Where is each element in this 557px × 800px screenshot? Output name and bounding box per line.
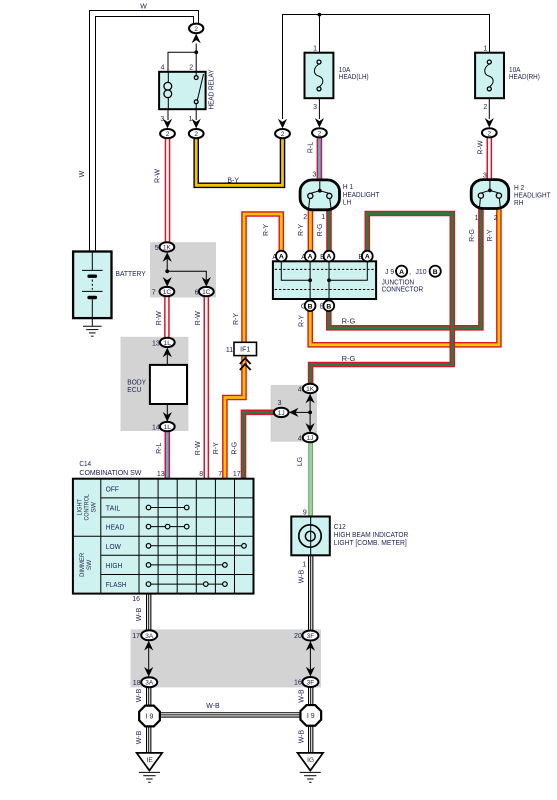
arrow down into connector 2 (relay pin3) bbox=[163, 119, 172, 129]
wire R-Y IF1 to junction A bbox=[244, 214, 281, 343]
arrow down into 7(1C) bbox=[163, 277, 172, 287]
svg-text:HEAD(RH): HEAD(RH) bbox=[509, 72, 540, 81]
svg-text:2: 2 bbox=[483, 104, 487, 111]
wire W-B I9 right to ground IG bbox=[308, 726, 313, 754]
svg-text:2: 2 bbox=[281, 131, 285, 138]
svg-text:RH: RH bbox=[514, 198, 523, 207]
wire R-G 3(1J) to comb sw pin17 bbox=[244, 412, 276, 479]
svg-text:LIGHT: LIGHT bbox=[77, 499, 84, 516]
svg-text:1J: 1J bbox=[278, 410, 285, 417]
wire: feed line to fuses bbox=[283, 15, 490, 120]
svg-text:OFF: OFF bbox=[106, 486, 119, 493]
arrow down into connector 2 (relay pin1) bbox=[192, 119, 201, 129]
connector 2 (fuse LH) bbox=[312, 128, 327, 137]
svg-text:18: 18 bbox=[133, 680, 141, 687]
svg-text:1K: 1K bbox=[306, 386, 315, 393]
contact row TAIL bbox=[149, 507, 187, 509]
svg-text:2: 2 bbox=[318, 130, 322, 137]
svg-text:HIGH: HIGH bbox=[106, 563, 123, 570]
svg-text:3A: 3A bbox=[145, 633, 154, 640]
svg-text:1L: 1L bbox=[164, 340, 172, 347]
svg-text:A: A bbox=[327, 254, 332, 261]
svg-text:3F: 3F bbox=[307, 680, 315, 687]
svg-text:CONNECTOR: CONNECTOR bbox=[382, 285, 424, 294]
svg-text:4: 4 bbox=[298, 386, 302, 393]
svg-text:LOW: LOW bbox=[106, 544, 121, 551]
arrow down into 18(3A) bbox=[144, 667, 153, 677]
connector 2 (fuse RH) bbox=[482, 128, 497, 137]
svg-text:1K: 1K bbox=[163, 244, 172, 251]
svg-text:2: 2 bbox=[194, 131, 198, 138]
svg-text:W-B: W-B bbox=[298, 689, 305, 703]
svg-text:1C: 1C bbox=[163, 289, 172, 296]
svg-text:13: 13 bbox=[157, 471, 165, 478]
svg-text:1: 1 bbox=[321, 214, 325, 221]
headlight H2 RH bbox=[471, 180, 551, 209]
svg-text:1: 1 bbox=[302, 561, 306, 568]
wire R-Y H1 pin2 to junction A bbox=[308, 209, 314, 251]
wire R-W relay pin3 to 5(1K) bbox=[165, 138, 171, 243]
wire R-G junction B bottom to H2 pin1 bbox=[329, 208, 481, 328]
svg-text:16: 16 bbox=[294, 680, 302, 687]
svg-text:IE: IE bbox=[147, 757, 154, 764]
svg-text:8: 8 bbox=[199, 471, 203, 478]
svg-text:TAIL: TAIL bbox=[106, 506, 121, 513]
svg-text:R-Y: R-Y bbox=[213, 442, 220, 454]
svg-text:2: 2 bbox=[189, 65, 193, 72]
wire W (battery to head relay), double line bbox=[90, 11, 199, 252]
svg-text:IG: IG bbox=[307, 757, 314, 764]
svg-text:BATTERY: BATTERY bbox=[116, 269, 146, 278]
arrow down into 6(1C) bbox=[202, 277, 211, 287]
connector IF1 bbox=[226, 342, 257, 370]
arrow down into connector 2 (fuse LH) bbox=[315, 118, 324, 128]
svg-text:1: 1 bbox=[313, 46, 317, 53]
svg-text:I 9: I 9 bbox=[146, 714, 154, 721]
svg-text:16: 16 bbox=[132, 596, 140, 603]
contact row HEAD bbox=[149, 526, 187, 528]
svg-text:2: 2 bbox=[494, 215, 498, 222]
svg-text:7: 7 bbox=[152, 289, 156, 296]
svg-text:R-Y: R-Y bbox=[298, 224, 305, 236]
wire B-Y relay pin1 to fuses feed bbox=[196, 138, 282, 185]
connector 2 (top, W wire) bbox=[189, 24, 203, 34]
arrow up into 5(1K) bbox=[163, 252, 172, 262]
wire R-L 14(1L) to comb sw pin13 bbox=[165, 431, 171, 479]
svg-text:1L: 1L bbox=[164, 424, 172, 431]
svg-text:R-L: R-L bbox=[156, 442, 163, 453]
svg-text:B: B bbox=[308, 303, 313, 310]
wire W-B comb sw pin16 to 17(3A) bbox=[146, 594, 151, 631]
wire R-W 7(1C) to 13(1L) bbox=[164, 296, 170, 338]
wire: relay feed from connector 2 bbox=[195, 44, 197, 72]
wire: 3A to 3A bbox=[148, 647, 150, 672]
svg-text:W-B: W-B bbox=[136, 730, 143, 744]
shaded bottom connector area bbox=[131, 629, 322, 687]
wire R-G H1 pin1 to junction B bbox=[326, 209, 332, 251]
svg-text:1: 1 bbox=[475, 215, 479, 222]
svg-text:R-W: R-W bbox=[477, 140, 484, 154]
head relay U1 bbox=[159, 70, 215, 110]
arrow left into 3(1J) bbox=[289, 408, 299, 417]
svg-text:4: 4 bbox=[298, 435, 302, 442]
wire: 1K to 1C split bbox=[167, 258, 206, 280]
svg-text:R-W: R-W bbox=[155, 169, 162, 183]
svg-text:R-W: R-W bbox=[195, 311, 202, 325]
svg-text:B-Y: B-Y bbox=[227, 178, 239, 185]
node: relay feed junction bbox=[194, 50, 198, 54]
ground (battery) bbox=[83, 318, 102, 336]
svg-text:W: W bbox=[140, 3, 147, 10]
svg-text:R-W: R-W bbox=[156, 311, 163, 325]
ground IG bbox=[298, 753, 324, 782]
indicator C12 high beam bbox=[291, 510, 408, 569]
svg-text:W-B: W-B bbox=[136, 688, 143, 702]
svg-text:1C: 1C bbox=[202, 289, 211, 296]
svg-text:R-G: R-G bbox=[342, 354, 356, 363]
headlight H1 LH bbox=[300, 180, 380, 210]
arrow down into 16(3F) bbox=[306, 667, 315, 677]
svg-text:J10: J10 bbox=[416, 267, 427, 276]
battery bbox=[73, 252, 146, 319]
svg-text:FLASH: FLASH bbox=[106, 582, 127, 589]
svg-text:17: 17 bbox=[233, 471, 241, 478]
svg-text:LH: LH bbox=[343, 197, 351, 206]
svg-text:2: 2 bbox=[303, 214, 307, 221]
svg-text:HEAD: HEAD bbox=[106, 525, 125, 532]
arrow down into 4(1J) bbox=[306, 423, 315, 433]
svg-text:LIGHT [COMB. METER]: LIGHT [COMB. METER] bbox=[334, 538, 407, 547]
svg-text:R-G: R-G bbox=[317, 224, 324, 237]
svg-text:3: 3 bbox=[312, 172, 316, 179]
wire R-W fuse RH to H2 pin3 bbox=[486, 137, 492, 181]
label J9 / J10 junction connector bbox=[382, 266, 441, 294]
ground point I9 (left) bbox=[139, 706, 160, 727]
svg-text:J 9: J 9 bbox=[385, 267, 394, 276]
svg-text:W-B: W-B bbox=[136, 607, 143, 621]
svg-text:A: A bbox=[279, 254, 284, 261]
arrow up into 4(1K) bbox=[306, 394, 315, 404]
svg-text:14: 14 bbox=[152, 425, 160, 432]
svg-text:I 9: I 9 bbox=[307, 713, 315, 720]
svg-text:W-B: W-B bbox=[298, 729, 305, 743]
svg-text:6: 6 bbox=[195, 289, 199, 296]
svg-text:HEAD RELAY: HEAD RELAY bbox=[207, 70, 216, 110]
svg-text:W-B: W-B bbox=[299, 569, 306, 583]
shaded relay-block area (battery junction connectors) bbox=[150, 242, 216, 297]
arrow down into connector 2 (B-Y feed) bbox=[278, 119, 287, 129]
ground IE bbox=[137, 753, 163, 782]
svg-text:LG: LG bbox=[297, 457, 304, 466]
svg-text:20: 20 bbox=[294, 633, 302, 640]
svg-text:R-Y: R-Y bbox=[263, 224, 270, 236]
wire W-B I9 left to ground IE bbox=[146, 727, 151, 754]
svg-text:R-G: R-G bbox=[469, 229, 476, 242]
wire: 1K to 1J split bbox=[293, 400, 310, 433]
arrow up into 20(3F) bbox=[306, 641, 315, 651]
wire: 3F to 3F bbox=[309, 647, 311, 672]
svg-text:A: A bbox=[308, 254, 313, 261]
svg-text:R-G: R-G bbox=[342, 317, 356, 326]
svg-text:2: 2 bbox=[166, 131, 170, 138]
wire W-B between ground points bbox=[161, 712, 301, 717]
svg-text:SW: SW bbox=[86, 559, 93, 570]
contact row LOW bbox=[149, 545, 245, 547]
svg-text:1J: 1J bbox=[307, 435, 314, 442]
arrow down into connector 2 (fuse RH) bbox=[485, 118, 494, 128]
svg-text:13: 13 bbox=[152, 340, 160, 347]
connector 2 (relay pin1) bbox=[189, 129, 204, 138]
svg-text:W-B: W-B bbox=[206, 703, 220, 710]
svg-text:B: B bbox=[433, 269, 438, 276]
svg-text:7: 7 bbox=[218, 471, 222, 478]
fuse 10A HEAD(RH) bbox=[475, 53, 540, 98]
svg-text:1: 1 bbox=[483, 46, 487, 53]
svg-text:3F: 3F bbox=[307, 633, 315, 640]
svg-text:DIMMER: DIMMER bbox=[79, 553, 86, 577]
arrow up into connector 2 top bbox=[192, 34, 201, 44]
wire W-B 16(3F) to ground point I9 right bbox=[308, 687, 313, 705]
wire R-Y below IF1 to comb sw pin7 bbox=[225, 355, 244, 479]
shaded body ECU area bbox=[121, 337, 189, 431]
svg-text:B: B bbox=[326, 303, 331, 310]
svg-text:2: 2 bbox=[194, 26, 198, 33]
svg-text:3: 3 bbox=[278, 400, 282, 407]
wire R-L fuse LH to H1 pin3 bbox=[317, 137, 323, 181]
body ECU bbox=[127, 338, 187, 432]
svg-text:5: 5 bbox=[155, 245, 159, 252]
wire: relay pin stubs bbox=[168, 109, 196, 120]
svg-text:ECU: ECU bbox=[127, 385, 141, 394]
svg-text:R-G: R-G bbox=[232, 442, 239, 455]
svg-text:C14: C14 bbox=[79, 459, 91, 468]
wire W-B 18(3A) to ground point I9 left bbox=[146, 687, 151, 705]
svg-text:HEAD(LH): HEAD(LH) bbox=[339, 72, 369, 81]
wire LG 4(1J) to C12 bbox=[308, 442, 313, 517]
connector 2 (relay pin3) bbox=[160, 129, 175, 138]
ground point I9 (right) bbox=[300, 705, 321, 726]
svg-text:,: , bbox=[409, 267, 411, 276]
svg-text:R-Y: R-Y bbox=[487, 229, 494, 241]
svg-text:2: 2 bbox=[487, 130, 491, 137]
svg-text:A: A bbox=[399, 269, 404, 276]
svg-text:4: 4 bbox=[161, 65, 165, 72]
svg-text:R-L: R-L bbox=[307, 142, 314, 153]
svg-text:R-Y: R-Y bbox=[233, 313, 240, 325]
wire: fuse bottom stubs bbox=[319, 98, 489, 119]
svg-text:3: 3 bbox=[313, 104, 317, 111]
wire R-Y junction C bottom to H2 pin2 bbox=[310, 208, 499, 345]
svg-text:17: 17 bbox=[132, 633, 140, 640]
wire: fuse LH feed bbox=[319, 15, 321, 53]
fuse 10A HEAD(LH) bbox=[305, 53, 370, 98]
svg-text:IF1: IF1 bbox=[240, 347, 250, 354]
svg-text:A: A bbox=[365, 254, 370, 261]
combination switch C14 bbox=[73, 459, 254, 594]
wire R-G junction B loop to 4(1K) bbox=[311, 214, 453, 385]
wire W-B C12 to 20(3F) bbox=[308, 555, 313, 631]
connector 2 (B-Y feed) bbox=[275, 129, 290, 138]
svg-text:R-W: R-W bbox=[195, 441, 202, 455]
svg-text:11: 11 bbox=[226, 347, 233, 354]
junction connector J9/J10 bbox=[273, 261, 376, 299]
svg-text:CONTROL: CONTROL bbox=[84, 494, 91, 521]
node: feed junction bbox=[318, 13, 322, 17]
svg-text:3A: 3A bbox=[145, 680, 154, 687]
svg-text:W: W bbox=[79, 170, 86, 177]
svg-text:COMBINATION SW: COMBINATION SW bbox=[79, 468, 142, 477]
svg-text:3: 3 bbox=[483, 173, 487, 180]
arrow up into 17(3A) bbox=[144, 641, 153, 651]
svg-text:SW: SW bbox=[91, 501, 98, 512]
contact row FLASH bbox=[149, 583, 225, 585]
svg-text:R-Y: R-Y bbox=[299, 315, 306, 327]
wire R-W 6(1C) to comb sw pin8 bbox=[204, 296, 210, 479]
shaded 1J/1K connector area bbox=[271, 385, 317, 442]
contact row HIGH bbox=[149, 564, 225, 566]
